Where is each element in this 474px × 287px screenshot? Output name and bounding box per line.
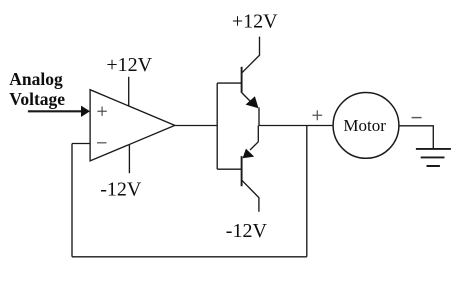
op-amp U1	[90, 90, 175, 161]
wire: base bus vertical	[216, 83, 218, 169]
input arrowhead	[81, 106, 90, 117]
op-amp + input sign	[97, 107, 106, 116]
wire: input signal	[28, 110, 82, 112]
svg-text:Analog: Analog	[9, 69, 63, 89]
transistor Q2 collector	[242, 180, 259, 211]
wire: output node to motor	[259, 125, 333, 127]
wire: feedback bottom horizontal	[72, 256, 307, 258]
transistor Q1 emitter with arrow	[242, 93, 254, 105]
wire: +12V supply lead of op-amp	[128, 77, 130, 106]
label: Analog Voltage input	[9, 69, 65, 109]
node - sign at motor	[412, 117, 422, 119]
wire: base of Q1	[217, 82, 241, 84]
ground symbol	[416, 149, 451, 166]
op-amp - input sign	[97, 142, 107, 144]
wire: motor to ground	[400, 126, 434, 149]
wire: op-amp output to base bus	[175, 125, 217, 127]
svg-text:-12V: -12V	[100, 179, 142, 201]
svg-text:Motor: Motor	[343, 116, 386, 135]
wire: base of Q2	[217, 168, 241, 170]
motor M1	[333, 93, 399, 159]
node + sign at motor	[312, 110, 322, 120]
wire: feedback left vertical	[71, 144, 73, 257]
transistor Q2 (PNP) base bar	[241, 156, 243, 186]
transistor Q1 collector	[242, 37, 260, 73]
transistor Q1 (NPN) base bar	[241, 67, 243, 93]
svg-text:+12V: +12V	[232, 11, 278, 33]
svg-text:-12V: -12V	[226, 220, 268, 242]
svg-text:+12V: +12V	[106, 54, 152, 76]
wire: feedback to op-amp inverting input	[72, 143, 90, 145]
transistor Q2 emitter with arrow	[250, 142, 258, 150]
wire: -12V supply lead of op-amp	[128, 144, 130, 173]
svg-text:Voltage: Voltage	[9, 89, 65, 109]
wire: feedback right vertical	[306, 126, 308, 257]
wire: Q1 emitter vertical	[258, 108, 260, 126]
wire: Q2 emitter vertical	[257, 126, 259, 142]
